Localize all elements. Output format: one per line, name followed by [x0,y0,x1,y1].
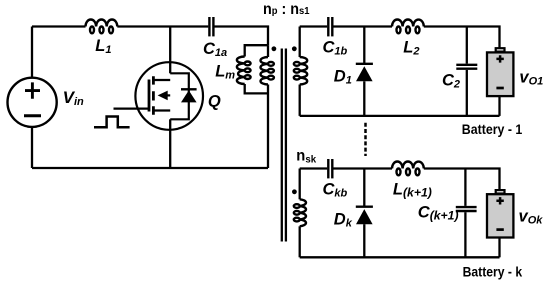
wire C2 bottom lead [466,70,468,116]
diode Dk [356,207,373,258]
transistor Q gate bar [148,80,151,112]
transistor Q circle [135,62,203,130]
svg-text:C1a: C1a [203,40,227,59]
svg-text:L2: L2 [403,39,419,58]
wire secondary-1 rail: corner to C1b [300,25,328,27]
svg-text:nsk: nsk [296,148,316,166]
svg-text:Battery - 1: Battery - 1 [462,122,523,137]
wire secondary-k bottom rail [300,256,500,258]
battery k [487,190,513,237]
voltage source Vin [7,78,56,127]
wire L1 to C1a [117,25,208,27]
diode Q body diode [181,88,197,90]
wire Lk+1 to battery-k corner [424,169,500,191]
diode D1 [356,64,373,116]
wire Vin top lead [31,27,33,78]
transformer core [282,49,286,242]
wire Ck+1 bottom lead [464,212,466,257]
wire Ck+1 top lead [464,169,466,206]
wire primary winding bottom lead [267,85,269,169]
inductor Lk+1 [392,162,424,176]
wire C1a to primary top corner [215,27,269,46]
svg-text:L1: L1 [95,37,111,56]
node primary dot [272,46,277,51]
capacitor C1a [209,17,213,36]
transformer secondary winding ns1 [294,57,307,85]
wire Q gate lead [114,107,149,109]
node secondary-1 dot [292,46,297,51]
svg-text:C1b: C1b [323,39,348,58]
wire secondary-1 top lead [299,27,301,58]
capacitor Ck+1 [456,207,477,211]
wire secondary-k bottom lead [299,226,301,257]
transformer secondary winding nsk [294,199,306,226]
wire bottom rail [32,167,268,169]
svg-text:Lm: Lm [215,63,235,82]
svg-text:L(k+1): L(k+1) [393,181,432,200]
capacitor C1b [328,17,332,36]
capacitor C2 [456,65,477,69]
svg-text:C(k+1): C(k+1) [418,203,459,222]
wire top rail left: Vin top to L1 [32,25,86,27]
wire secondary-1 bottom lead [299,85,301,116]
wire Dk top lead [363,169,365,207]
wire primary winding top lead [267,45,269,57]
wire secondary-k top lead [299,169,301,200]
inductor L2 [392,19,424,33]
wire secondary-k rail: corner to Ckb [300,167,328,169]
wire Ckb to Lk+1 [333,167,392,169]
wire battery-k bottom lead [498,238,500,258]
svg-text:Dk: Dk [334,210,353,229]
svg-text:C2: C2 [442,72,460,91]
wire secondary-1 bottom rail [300,115,500,117]
transistor Q internal drain-source path [170,73,189,119]
transistor Q channel segments [152,76,155,115]
inductor Lm loop wires [245,45,268,93]
inductor Lm coil [237,57,251,85]
transformer primary winding np [260,57,273,85]
dashed stage separator [364,123,367,156]
svg-text:Battery - k: Battery - k [463,264,523,279]
wire C1b to L2 [333,25,392,27]
wire Q drain lead [169,27,171,74]
svg-text:vO1: vO1 [519,69,543,88]
wire C2 top lead [466,27,468,64]
gate pulse symbol [94,117,130,128]
transistor Q body arrow [166,94,170,96]
svg-text:vOk: vOk [519,208,544,227]
svg-text:Q: Q [208,92,221,110]
svg-text:Ckb: Ckb [323,181,348,200]
wire Vin bottom lead [31,127,33,168]
MOSFET Q [94,27,203,169]
transistor Q stubs [153,80,170,111]
svg-text:Vin: Vin [63,88,84,108]
svg-text:D1: D1 [334,67,352,86]
wire D1 top lead [363,27,365,64]
capacitor Ckb [328,159,332,178]
inductor L1 [86,19,118,33]
wire Q source lead [169,119,171,168]
node secondary-k dot [292,189,297,194]
battery 1 [487,48,513,96]
wire battery-1 bottom lead [498,96,500,116]
svg-text:np : ns1: np : ns1 [263,1,310,18]
wire L2 to battery-1 corner [424,27,500,49]
